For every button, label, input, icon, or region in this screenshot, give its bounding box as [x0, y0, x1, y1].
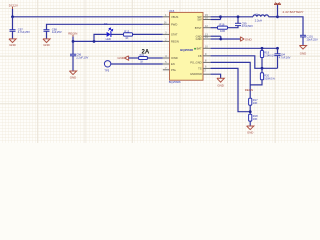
- svg-text:1.54K/1%: 1.54K/1%: [264, 53, 276, 57]
- ground below C98: [43, 39, 50, 47]
- resistor R20: [250, 68, 275, 85]
- svg-text:10K: 10K: [253, 117, 258, 121]
- svg-text:4.4V BATTERY: 4.4V BATTERY: [282, 10, 303, 14]
- wire BTST to R16: [211, 27, 218, 29]
- node junction FB: [261, 67, 264, 70]
- resistor R18: [249, 114, 259, 126]
- ground below C97: [9, 39, 16, 47]
- ground below C96: [69, 71, 76, 79]
- LED D6: [104, 22, 113, 41]
- U16 left pin numbers: [164, 14, 167, 70]
- svg-text:BAT: BAT: [197, 46, 202, 50]
- wire L5 to battery node: [269, 16, 278, 18]
- svg-text:2.2uF,10V: 2.2uF,10V: [76, 55, 88, 59]
- wire PAD to ground: [211, 74, 221, 78]
- svg-text:10R: 10R: [220, 29, 225, 33]
- U16 left pins: [163, 17, 170, 70]
- wire BAT row: [211, 47, 278, 49]
- U16 right pin numbers: [203, 14, 208, 73]
- svg-text:GND: GND: [43, 43, 49, 47]
- wire R15 to STAT: [133, 33, 163, 35]
- node junction BAT C104: [276, 47, 279, 50]
- svg-text:BQ25606: BQ25606: [169, 80, 181, 84]
- node junction GND pins: [219, 38, 222, 41]
- capacitor C99: [235, 17, 253, 28]
- wire SW merge: [211, 17, 221, 20]
- svg-text:D6: D6: [104, 22, 108, 26]
- ground below C101: [299, 46, 306, 56]
- wire GND row: [221, 38, 241, 40]
- capacitor C96: [70, 41, 89, 70]
- svg-text:10K: 10K: [253, 101, 258, 105]
- wire battery to C101: [278, 17, 304, 36]
- U16 right pin names: [190, 15, 202, 76]
- svg-text:PSL: PSL: [171, 68, 177, 72]
- wire PG REGN route: [211, 62, 251, 98]
- ground below PAD: [217, 78, 224, 87]
- wire VBUS rail: [13, 16, 163, 18]
- ground below R18: [247, 126, 254, 135]
- svg-text:GND: GND: [70, 75, 76, 79]
- svg-text:BTST: BTST: [195, 26, 202, 30]
- svg-text:4.7uF,25V: 4.7uF,25V: [18, 30, 30, 34]
- wire R21 to IOND pin: [147, 57, 162, 59]
- resistor R19: [260, 48, 276, 68]
- node junction BAT R19: [261, 47, 264, 50]
- svg-text:1K: 1K: [125, 36, 128, 40]
- capacitor C101: [300, 34, 318, 45]
- svg-text:GND: GND: [196, 37, 202, 41]
- svg-text:PWD: PWD: [171, 22, 177, 26]
- node 4.4V BATTERY power port: [274, 3, 304, 17]
- svg-text:REGN: REGN: [245, 88, 253, 92]
- node junction SW: [219, 15, 222, 18]
- svg-text:SW: SW: [197, 18, 202, 22]
- op-amp U16 charger IC body: [169, 9, 203, 84]
- wire ILIM row left: [129, 57, 139, 59]
- wire PMID rail: [47, 24, 163, 29]
- node junction battery: [276, 15, 279, 18]
- svg-text:BQ25606: BQ25606: [180, 48, 193, 52]
- node junction C99 SW: [237, 15, 240, 18]
- svg-text:TP5: TP5: [104, 69, 109, 73]
- capacitor C104: [275, 48, 291, 68]
- ground sideways right: [240, 37, 252, 42]
- svg-text:47nF,50V: 47nF,50V: [242, 24, 254, 28]
- wire FB route: [211, 56, 278, 69]
- wire R16 to C99: [228, 26, 239, 28]
- svg-text:TS: TS: [198, 67, 202, 71]
- svg-text:GND: GND: [9, 43, 15, 47]
- resistor R16: [218, 23, 228, 33]
- node junction TS divider: [249, 110, 252, 113]
- wire EN row: [111, 63, 163, 65]
- wire DC12V drop: [12, 9, 14, 17]
- svg-text:GND: GND: [300, 51, 306, 55]
- testpoint TP5: [104, 61, 110, 73]
- wire SW trunk: [221, 16, 254, 18]
- wire GND pins merge: [211, 36, 221, 39]
- resistor R21: [139, 54, 148, 64]
- node junction REGN left: [72, 40, 75, 43]
- svg-text:100K/1%: 100K/1%: [264, 76, 275, 80]
- U16 right pins: [203, 17, 211, 74]
- svg-text:STAT: STAT: [171, 33, 178, 37]
- svg-text:GND: GND: [247, 131, 253, 135]
- svg-text:GND: GND: [117, 56, 123, 60]
- wire REGN row: [73, 40, 163, 42]
- capacitor C97: [10, 17, 31, 39]
- svg-text:LED: LED: [106, 37, 111, 41]
- svg-text:1uF,25V: 1uF,25V: [52, 30, 62, 34]
- capacitor C98: [44, 28, 62, 39]
- wire LED to R15: [111, 33, 124, 35]
- node REGIN net label: [68, 31, 77, 37]
- svg-text:IOND: IOND: [171, 56, 178, 60]
- wire TS route: [211, 68, 251, 111]
- svg-text:2.2uH: 2.2uH: [255, 18, 262, 22]
- svg-text:4.7uF,16V: 4.7uF,16V: [279, 56, 291, 60]
- resistor R17: [249, 98, 259, 114]
- svg-text:1K: 1K: [140, 60, 143, 63]
- ground sideways ILIM: [117, 56, 128, 60]
- node junction REGN right: [93, 40, 96, 43]
- svg-text:10uF,25V: 10uF,25V: [306, 37, 318, 41]
- svg-text:VBUS: VBUS: [171, 15, 179, 19]
- wire STAT riser: [94, 34, 105, 41]
- node DC12V power port: [9, 3, 18, 9]
- svg-text:DC12V: DC12V: [9, 3, 18, 7]
- svg-text:REGN: REGN: [171, 40, 179, 44]
- svg-text:GND: GND: [217, 83, 223, 87]
- svg-text:GND/PAD: GND/PAD: [190, 72, 202, 76]
- svg-text:GND: GND: [245, 37, 253, 41]
- svg-text:FB: FB: [198, 54, 202, 58]
- inductor L5: [253, 12, 269, 22]
- svg-text:EN: EN: [171, 62, 175, 66]
- wire REGN drop: [72, 37, 74, 42]
- node junction VBUS rail: [11, 15, 14, 18]
- svg-text:PG_GND: PG_GND: [190, 61, 201, 65]
- U16 left pin names: [171, 15, 179, 72]
- resistor R15: [124, 29, 133, 40]
- svg-text:U16: U16: [169, 9, 175, 13]
